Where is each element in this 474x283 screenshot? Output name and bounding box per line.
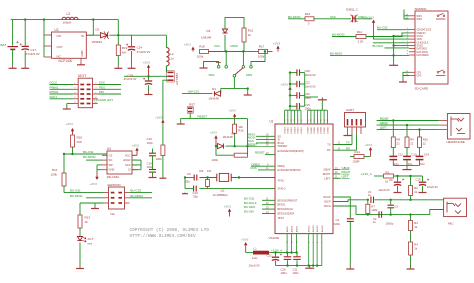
- diode D1 1N4148: [218, 132, 236, 149]
- wire SD VSS: [394, 36, 409, 64]
- resistor R16: [233, 118, 244, 146]
- ground analog rail: [305, 266, 314, 269]
- wire +3V node down to R19: [117, 35, 119, 45]
- ground crystal: [182, 193, 188, 194]
- wire D2 cathode to +3V node: [110, 34, 119, 36]
- capacitor C10a 100n: [281, 253, 292, 275]
- svg-text:DGND0: DGND0: [308, 127, 310, 134]
- wire R11 to EEPROM pin1: [64, 192, 104, 194]
- wire MISO row: [248, 132, 275, 136]
- supply +3V3 above R20: [66, 122, 75, 135]
- svg-text:SW2: SW2: [246, 73, 253, 77]
- capacitor C2: [373, 211, 382, 224]
- svg-text:C14: C14: [424, 152, 430, 156]
- svg-text:BU-MOSI: BU-MOSI: [332, 33, 345, 37]
- wire MOSI to R17: [243, 51, 258, 53]
- wire VBAT top rail: [11, 19, 94, 21]
- svg-text:+3.3V_A: +3.3V_A: [361, 172, 372, 176]
- svg-text:C21: C21: [267, 253, 273, 257]
- svg-text:BP1O0/SPIBOOT: BP1O0/SPIBOOT: [278, 199, 298, 202]
- svg-text:SD-CARD: SD-CARD: [415, 87, 430, 91]
- svg-text:SO: SO: [109, 158, 113, 162]
- svg-text:PWM1: PWM1: [50, 86, 59, 90]
- pins headphone jack stubs: [439, 121, 448, 130]
- net label BU-MISO at EEPROM: [131, 194, 144, 198]
- svg-text:SCK: SCK: [99, 81, 105, 85]
- svg-text:BU-SDO: BU-SDO: [244, 205, 256, 209]
- svg-text:1uH: 1uH: [252, 256, 257, 260]
- wire R17 to +3V3: [268, 51, 273, 53]
- wire +3.3V_A rail: [269, 252, 297, 254]
- resistor R5 1M: [200, 169, 212, 189]
- svg-text:XTALO: XTALO: [278, 188, 286, 191]
- node SW common corner: [247, 87, 249, 89]
- svg-text:DCL: DCL: [215, 44, 221, 48]
- svg-text:MOSI: MOSI: [231, 44, 239, 48]
- connector UEXT header: [73, 74, 98, 108]
- supply +3V3 cap bank: [281, 82, 292, 95]
- node L3 out: [92, 18, 94, 20]
- svg-text:BP1O3/SDATA: BP1O3/SDATA: [278, 213, 295, 216]
- svg-text:C24: C24: [137, 46, 143, 50]
- resistor R4: [409, 242, 419, 267]
- op-amp U2 NCP1400 boost regulator: [52, 28, 87, 63]
- svg-text:100k: 100k: [155, 157, 162, 161]
- LED ACT red: [77, 237, 93, 267]
- svg-text:SCK: SCK: [125, 163, 131, 167]
- resistor R2: [409, 176, 419, 200]
- svg-text:DREQ: DREQ: [278, 165, 285, 168]
- svg-text:C6: C6: [389, 178, 393, 182]
- wire BU-MOSI to U3 SO: [86, 159, 102, 161]
- svg-text:1000p: 1000p: [386, 222, 394, 226]
- svg-text:BAT: BAT: [1, 43, 7, 47]
- svg-text:MICN: MICN: [324, 205, 331, 208]
- node bottom R7: [367, 213, 369, 215]
- svg-text:R21: R21: [248, 29, 254, 33]
- svg-text:GND: GND: [80, 50, 84, 56]
- svg-text:CP2: CP2: [417, 75, 422, 78]
- node RESET junction: [246, 145, 248, 147]
- wire U3 GND to arrow: [97, 165, 102, 172]
- svg-text:TX: TX: [346, 141, 350, 145]
- wire headphone LEFT: [377, 126, 439, 130]
- ground under C18: [145, 92, 153, 95]
- svg-text:BU-CS1: BU-CS1: [70, 189, 81, 193]
- svg-text:C9: C9: [187, 172, 191, 176]
- svg-text:SW-CS1: SW-CS1: [188, 89, 200, 93]
- wire C10 to XTALI net: [185, 178, 188, 189]
- resistor R14 100R: [350, 150, 371, 163]
- svg-text:LEFT: LEFT: [342, 175, 349, 179]
- node RIGHT filter: [392, 119, 394, 121]
- svg-text:RX: RX: [327, 149, 331, 152]
- supply +3V3 right of R17: [273, 42, 281, 52]
- svg-text:+3V3: +3V3: [210, 130, 218, 134]
- connector SD/MMC card: [406, 7, 448, 91]
- node agnd rail: [316, 264, 318, 266]
- svg-text:GBUF: GBUF: [380, 121, 388, 125]
- resistor 100k parallel D1: [212, 146, 248, 162]
- svg-text:47uF/6.3V: 47uF/6.3V: [26, 52, 40, 56]
- svg-text:BU-SCK: BU-SCK: [373, 44, 384, 48]
- svg-text:L3: L3: [67, 12, 71, 16]
- wire switch drop left: [225, 52, 227, 66]
- node battery top: [24, 18, 26, 20]
- wire U3 WP stub: [97, 164, 102, 166]
- node R20 bottom: [71, 153, 73, 155]
- ground SW left: [200, 67, 208, 69]
- wire R15 to DSEQ: [314, 18, 351, 20]
- supply +3V3 at D1: [210, 130, 218, 146]
- svg-text:BU-CS2: BU-CS2: [131, 189, 142, 193]
- svg-text:red: red: [88, 241, 93, 245]
- wire SW common to D4: [221, 89, 235, 94]
- svg-text:R17: R17: [259, 45, 265, 49]
- wire CP bracket: [403, 72, 409, 80]
- svg-text:BU-MISO: BU-MISO: [330, 51, 343, 55]
- net label 3.3V/GND_EXT: [93, 98, 113, 102]
- svg-text:TX: TX: [327, 144, 331, 147]
- svg-text:100k: 100k: [258, 54, 265, 58]
- capacitor C18: [124, 73, 153, 92]
- node cap bank C28: [289, 71, 291, 73]
- ground SD VSS: [389, 64, 398, 66]
- svg-text:10u/6.3V: 10u/6.3V: [427, 185, 438, 189]
- svg-text:1u: 1u: [373, 220, 377, 224]
- svg-text:ALED3: ALED3: [296, 225, 299, 232]
- svg-text:R15: R15: [305, 12, 311, 16]
- wire U1 top VDD rail: [285, 109, 302, 111]
- wire RCAP to C4: [333, 197, 350, 218]
- wire EEPROM pin3: [86, 197, 104, 199]
- svg-text:AGND4: AGND4: [321, 225, 324, 233]
- wire MOSI row: [248, 136, 275, 140]
- svg-text:BU-MOSI: BU-MOSI: [288, 15, 301, 19]
- ground U1 top: [318, 97, 327, 100]
- node bias R2: [409, 175, 411, 177]
- node D1 anode: [215, 145, 217, 147]
- wire IN to D2 anode: [86, 34, 100, 36]
- wire D4 to SW-CS1: [182, 93, 213, 95]
- resistor R21: [242, 28, 254, 42]
- svg-text:100n: 100n: [281, 271, 288, 275]
- wire 3V rail left ext: [124, 75, 149, 77]
- svg-text:100n: 100n: [147, 141, 154, 145]
- svg-text:R20: R20: [77, 136, 83, 140]
- svg-text:RESET: RESET: [255, 151, 265, 155]
- svg-text:+3.3V_A: +3.3V_A: [271, 248, 282, 252]
- svg-text:1M: 1M: [207, 169, 212, 173]
- node GBUF filter: [406, 124, 408, 126]
- supply arrow below U3: [90, 172, 99, 186]
- capacitor C19 at U3: [147, 161, 157, 177]
- connector EEPROM: [104, 183, 130, 216]
- svg-text:RST: RST: [189, 102, 195, 106]
- wire XTALO row: [200, 188, 276, 190]
- svg-text:HTTP://WWW.OLIMEX.COM/DEV: HTTP://WWW.OLIMEX.COM/DEV: [130, 234, 197, 239]
- resistor R12: [356, 30, 366, 44]
- wire D3 top loop: [225, 17, 244, 29]
- svg-text:DGND1: DGND1: [324, 127, 326, 134]
- ground under C19: [149, 176, 157, 178]
- wire SCK row: [248, 139, 275, 143]
- svg-text:C3: C3: [394, 205, 398, 209]
- wire TX row: [333, 134, 352, 145]
- node R11 tap: [63, 153, 65, 155]
- wire R18 to DCL node: [209, 51, 227, 53]
- svg-text:XRESET: XRESET: [278, 145, 288, 148]
- wire RESET down: [247, 119, 249, 147]
- node xtal row1 a: [206, 176, 208, 178]
- ground at EEPROM: [91, 207, 99, 209]
- ground under C16: [419, 191, 427, 193]
- svg-text:+3V3: +3V3: [90, 182, 98, 186]
- wire XTALI row: [231, 177, 275, 179]
- node agnd rail: [286, 264, 288, 266]
- resistor R7: [366, 200, 378, 215]
- supply +3V3 above R16: [229, 109, 237, 119]
- ground under C17: [21, 66, 29, 69]
- svg-text:UART: UART: [346, 108, 354, 112]
- net label BU-MOSI at U3: [83, 155, 96, 159]
- svg-text:100k: 100k: [197, 54, 204, 58]
- supply +3V3 at U3 VCC: [132, 143, 140, 155]
- svg-text:10K: 10K: [77, 140, 82, 144]
- net label +3.3V_A: [271, 248, 282, 252]
- svg-text:100k: 100k: [371, 208, 378, 212]
- svg-text:EEPROM: EEPROM: [108, 183, 122, 187]
- svg-text:BU-SDI: BU-SDI: [244, 210, 254, 214]
- pin number 30: [266, 145, 269, 147]
- svg-text:MISO1: MISO1: [50, 90, 59, 94]
- svg-text:RESET: RESET: [198, 115, 208, 119]
- svg-text:10u/6.3V: 10u/6.3V: [379, 188, 390, 192]
- supply +3V3 near C18: [143, 61, 151, 77]
- node cap bank C22: [289, 83, 291, 85]
- capacitor C20: [290, 92, 311, 100]
- node mic R7: [367, 199, 369, 201]
- net label BU-CS1 at U3: [83, 150, 94, 154]
- wire headphone GBUF: [377, 121, 439, 125]
- wire L3 out down to IN: [92, 20, 94, 36]
- pin U2 GND stub: [80, 58, 82, 63]
- svg-text:WP: WP: [109, 163, 114, 167]
- wire WP bracket: [404, 10, 409, 20]
- wire MICN row: [333, 206, 356, 215]
- wire DREQ row: [251, 165, 275, 167]
- node crystal corner: [184, 176, 186, 178]
- svg-text:R16: R16: [238, 129, 244, 133]
- svg-text:LEFT: LEFT: [380, 126, 387, 130]
- svg-text:+3V3: +3V3: [184, 43, 192, 47]
- wire +3V3 to L1: [246, 252, 253, 254]
- capacitor C28: [290, 69, 316, 77]
- svg-text:ON: ON: [57, 34, 61, 38]
- resistor R3: [409, 215, 419, 242]
- wire DCL to MOSI node: [226, 51, 243, 53]
- svg-text:R5: R5: [200, 169, 204, 173]
- connector UART: [345, 108, 366, 134]
- wire SW left contact to ground: [204, 62, 219, 67]
- svg-text:2.2K: 2.2K: [358, 39, 364, 43]
- svg-text:CS: CS: [109, 153, 113, 157]
- wire jumper bottom to +3V3: [163, 80, 168, 126]
- svg-text:GBUF: GBUF: [342, 166, 350, 170]
- wire mic bottom row: [356, 214, 430, 216]
- svg-text:BU-DCLK: BU-DCLK: [244, 201, 257, 205]
- ground under R19: [114, 66, 122, 69]
- wire +3V node to L2 branch: [132, 34, 167, 36]
- label RST: [189, 102, 195, 106]
- wire R12 to CMD: [366, 33, 409, 37]
- svg-text:ALED1: ALED1: [286, 225, 289, 232]
- net label SCK top: [330, 15, 336, 19]
- svg-text:OUT: OUT: [57, 45, 63, 49]
- svg-text:DGND3: DGND3: [317, 127, 319, 134]
- node bias C6: [396, 175, 398, 177]
- wire mic row right: [375, 199, 444, 201]
- diode D3 1N4148: [201, 29, 228, 40]
- resistor R9 pulldown: [155, 127, 165, 178]
- svg-text:HEADPHONE: HEADPHONE: [447, 140, 465, 144]
- wire R21 bottom: [243, 42, 245, 52]
- ground under pulldown: [159, 177, 166, 178]
- svg-text:ALED2: ALED2: [291, 225, 294, 232]
- svg-text:+3V3: +3V3: [241, 237, 249, 241]
- wire UEXT pin4: [98, 86, 121, 90]
- capacitor C16: [416, 176, 439, 191]
- svg-text:RIGHT: RIGHT: [342, 170, 351, 174]
- node mic C3: [390, 199, 392, 201]
- node BU-MISO cross: [392, 54, 394, 56]
- svg-text:L1: L1: [254, 246, 258, 250]
- pins U1 top VDD group: [284, 110, 303, 133]
- connector HEADPHONE jack: [447, 114, 471, 145]
- copyright text: [130, 228, 210, 239]
- wire MICP row: [333, 200, 369, 202]
- wire RESET to U1: [226, 145, 276, 147]
- resistor R15: [305, 12, 314, 26]
- switch lever: [216, 63, 243, 75]
- svg-text:C17: C17: [31, 48, 37, 52]
- node agnd rail: [296, 264, 298, 266]
- pins U1 bottom ALED group: [286, 225, 299, 253]
- ground UEXT: [63, 108, 71, 110]
- net label BU-MOSI at EEPROM: [70, 194, 83, 198]
- net label BU-CS1 at EEPROM: [70, 189, 81, 193]
- battery BAT: [1, 20, 19, 66]
- svg-text:NC: NC: [57, 55, 61, 59]
- wire cap bank left rail: [289, 73, 291, 111]
- svg-text:R11: R11: [52, 168, 58, 172]
- svg-text:10u/6.3V: 10u/6.3V: [305, 84, 316, 88]
- wire U1 top GND rail: [308, 100, 328, 110]
- svg-text:NA: NA: [122, 50, 126, 54]
- wire R20 to U3 CS: [64, 153, 107, 155]
- node VSS2: [392, 44, 394, 46]
- wire EEPROM gnd branch: [94, 203, 96, 207]
- ground under R4: [407, 267, 415, 270]
- svg-text:47uF/6.3V: 47uF/6.3V: [124, 77, 137, 81]
- inductor L3: [62, 12, 78, 24]
- diode D4 1N4148: [209, 87, 221, 101]
- ground headphone filters: [403, 168, 412, 170]
- resistor R19: [116, 45, 127, 66]
- svg-text:1N5819: 1N5819: [92, 40, 103, 44]
- svg-text:1u: 1u: [170, 57, 174, 61]
- net label MOSI: [231, 44, 239, 48]
- svg-text:DAT2/RES: DAT2/RES: [417, 54, 429, 57]
- wire mic jack pin2: [430, 210, 444, 215]
- svg-text:MICP: MICP: [324, 201, 331, 204]
- svg-text:22: 22: [397, 141, 401, 145]
- svg-text:DGND2: DGND2: [314, 127, 316, 134]
- capacitor C6: [379, 176, 405, 192]
- IC U1 VS1002: [269, 120, 334, 240]
- capacitor C15 bank: [290, 103, 311, 111]
- net label RESET at U1: [248, 142, 258, 146]
- svg-text:GBUF: GBUF: [324, 169, 331, 172]
- net label RESET: [198, 115, 208, 119]
- resistor R8 and capacitor C12: [389, 121, 403, 166]
- resistor R18: [197, 45, 209, 59]
- svg-text:DVDD1: DVDD1: [288, 127, 290, 133]
- node cap bank C20: [289, 94, 291, 96]
- svg-text:BU-CS1: BU-CS1: [244, 196, 255, 200]
- net label BU-MOSI top: [288, 15, 301, 19]
- wire RESET pin row: [255, 151, 275, 155]
- wire EEPROM pin4: [130, 197, 153, 199]
- svg-text:1N4148: 1N4148: [209, 97, 220, 101]
- svg-text:25LC640: 25LC640: [107, 175, 120, 179]
- wire UEXT pin1: [50, 81, 74, 85]
- wire U3 right pins: [132, 155, 141, 169]
- svg-text:DVDD2: DVDD2: [301, 127, 303, 133]
- wire BU-SDO row: [244, 205, 275, 209]
- wire down to L2: [165, 35, 167, 47]
- net label +3.3V_A bias: [361, 172, 372, 176]
- node agnd rail: [308, 264, 310, 266]
- capacitor C22: [290, 81, 316, 89]
- wire BU-CS2 to CS: [377, 26, 409, 30]
- wire GBUF row: [333, 166, 350, 170]
- switch SW2 contacts: [233, 66, 252, 77]
- svg-text:+3V3: +3V3: [281, 82, 289, 86]
- capacitor C1: [368, 190, 374, 203]
- svg-text:PDO: PDO: [99, 86, 106, 90]
- ground under LED: [76, 266, 84, 269]
- resistor R9 and capacitor C13: [403, 125, 417, 166]
- pins U1 top GND group: [307, 110, 329, 133]
- svg-text:D2: D2: [96, 28, 100, 32]
- wire crystal left: [200, 177, 217, 179]
- wire DCS row: [251, 166, 276, 170]
- node agnd rail: [312, 264, 314, 266]
- wire bias rail: [394, 175, 423, 177]
- wire VBAT to L3 right ext: [93, 19, 118, 21]
- wire RIGHT row: [333, 170, 351, 174]
- svg-text:DVDD0: DVDD0: [294, 127, 296, 133]
- ground SW common: [244, 94, 252, 96]
- svg-text:DGND1: DGND1: [311, 127, 313, 134]
- wire RST to ground: [181, 119, 191, 123]
- node MOSI: [242, 50, 244, 52]
- svg-text:PDI: PDI: [99, 90, 104, 94]
- svg-text:BU-CS2: BU-CS2: [377, 26, 388, 30]
- node ALED rail: [286, 251, 288, 253]
- label SW2: [246, 73, 253, 77]
